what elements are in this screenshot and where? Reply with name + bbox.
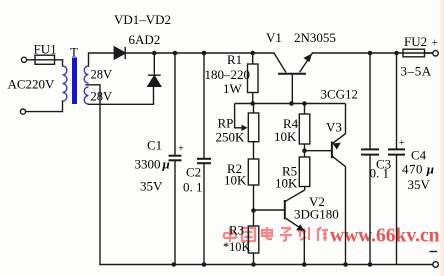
transformer T secondary winding top: [84, 66, 88, 104]
transistor V1 2N3055: [274, 53, 312, 104]
wire secondary center tap to ground rail: [86, 85, 100, 265]
svg-text:V3: V3: [326, 120, 342, 135]
svg-text:FU2: FU2: [404, 34, 427, 49]
svg-text:35V: 35V: [408, 177, 431, 192]
fuse FU1: [35, 55, 55, 64]
svg-text:RP: RP: [218, 116, 234, 131]
transformer T secondary winding bottom: [84, 87, 88, 104]
diode VD1: [114, 47, 153, 59]
svg-text:*10K: *10K: [223, 240, 250, 254]
node dots top rail: [152, 51, 399, 56]
resistor R5: [299, 157, 310, 190]
diode VD2: [148, 53, 161, 86]
svg-text:C2: C2: [186, 165, 201, 180]
svg-text:3CG12: 3CG12: [321, 87, 359, 102]
svg-text:470 μ: 470 μ: [402, 162, 434, 177]
node dot R4/R5 junction: [302, 148, 307, 153]
potentiometer RP wiper arrow: [235, 104, 245, 128]
svg-text:10K: 10K: [224, 173, 247, 188]
svg-text:3300μ: 3300μ: [135, 157, 170, 172]
svg-text:FU1: FU1: [34, 42, 57, 57]
capacitor C2: [197, 53, 211, 265]
bus wire (regulator reference bus): [235, 103, 346, 105]
transistor V2 3DG180: [254, 190, 305, 265]
svg-text:www.66kv.cn: www.66kv.cn: [330, 226, 440, 247]
svg-text:1W: 1W: [223, 81, 243, 96]
svg-text:10K: 10K: [275, 176, 298, 191]
wire AC top to fuse: [27, 59, 35, 61]
svg-text:28V: 28V: [91, 90, 113, 104]
terminal output plus: [433, 51, 438, 56]
terminal output minus: [433, 262, 439, 268]
resistor R2: [248, 159, 258, 226]
svg-text:0. 1: 0. 1: [370, 166, 390, 181]
svg-text:T: T: [70, 45, 78, 60]
node dot V2 base junction: [251, 208, 256, 213]
wire fuse to primary top: [62, 60, 64, 66]
terminal AC input top: [21, 57, 26, 62]
svg-text:+: +: [432, 37, 439, 49]
svg-text:0. 1: 0. 1: [183, 180, 203, 195]
svg-text:VD1–VD2: VD1–VD2: [114, 12, 171, 27]
svg-text:3DG180: 3DG180: [294, 207, 339, 222]
wire primary bottom to AC bottom terminal: [26, 101, 63, 112]
capacitor C3: [361, 53, 379, 265]
fuse FU2: [403, 49, 433, 57]
transformer T core: [72, 58, 77, 105]
svg-text:35V: 35V: [140, 179, 163, 194]
svg-text:AC220V: AC220V: [8, 77, 56, 92]
svg-text:C4: C4: [411, 148, 427, 163]
svg-text:2N3055: 2N3055: [294, 30, 336, 45]
resistor R4: [299, 104, 310, 158]
svg-text:C1: C1: [147, 138, 162, 153]
transistor V3 3CG12: [305, 104, 346, 265]
capacitor C4: [388, 53, 405, 265]
watermark: [224, 227, 328, 242]
resistor R3: [248, 226, 258, 265]
terminal AC input bottom: [20, 109, 25, 114]
transformer T primary winding: [63, 66, 67, 101]
svg-text:250K: 250K: [216, 130, 246, 145]
svg-text:R3: R3: [229, 223, 244, 238]
node dots bus: [250, 101, 306, 106]
scan edge tint: [441, 0, 444, 276]
svg-text:R1: R1: [227, 52, 242, 67]
svg-text:10K: 10K: [274, 129, 297, 144]
svg-text:+: +: [399, 138, 405, 149]
capacitor C1: [169, 53, 182, 265]
top rail left section: [154, 52, 275, 54]
potentiometer RP: [235, 104, 259, 160]
wire secondary bottom to VD2: [89, 86, 154, 104]
svg-text:28V: 28V: [91, 68, 113, 82]
svg-text:V1: V1: [266, 30, 282, 45]
resistor R1: [248, 53, 259, 104]
top rail right section: [312, 52, 403, 54]
svg-text:3–5A: 3–5A: [401, 64, 432, 79]
wire secondary top to VD1: [89, 53, 115, 66]
bottom rail: [100, 264, 433, 266]
svg-text:180–220: 180–220: [205, 67, 251, 82]
minus sign: [430, 251, 438, 253]
svg-text:6AD2: 6AD2: [129, 32, 161, 47]
svg-text:+: +: [178, 144, 184, 155]
top rail after FU2: [425, 52, 433, 54]
node dots bottom rail: [172, 262, 373, 267]
